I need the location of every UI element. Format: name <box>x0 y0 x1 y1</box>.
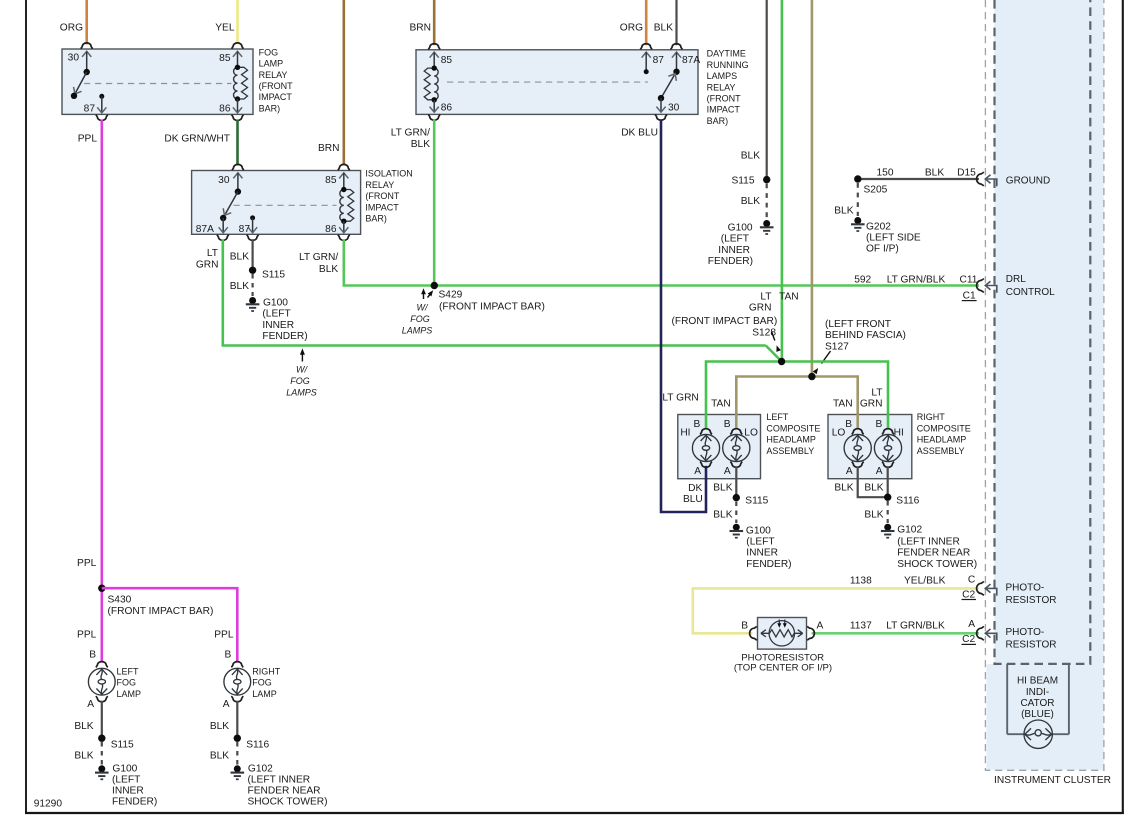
wire LT GRN/BLK isolation 86 down to DRL control run <box>344 239 979 285</box>
wire DK GRN/WHT fog relay 86 to isolation relay 30 <box>236 120 239 166</box>
instrument cluster inner dashed box <box>995 0 1091 664</box>
isolation relay pin 87A lead and arrow <box>222 218 224 232</box>
svg-text:B: B <box>225 649 232 660</box>
svg-text:G100: G100 <box>746 526 771 537</box>
svg-text:ORG: ORG <box>60 23 83 34</box>
fog lamp relay pin 30 arrow and lead <box>82 51 91 57</box>
svg-text:HI: HI <box>680 427 690 438</box>
svg-text:LT GRN/BLK: LT GRN/BLK <box>887 274 946 285</box>
svg-text:RESISTOR: RESISTOR <box>1006 640 1057 651</box>
wire BLK isolation 87 to S115 <box>252 239 254 270</box>
fog lamp relay coil <box>234 67 248 99</box>
svg-text:1137: 1137 <box>850 621 872 632</box>
svg-text:TAN: TAN <box>711 398 731 409</box>
svg-text:INDI-: INDI- <box>1026 687 1049 698</box>
svg-text:IMPACT: IMPACT <box>259 92 293 102</box>
DRL relay pin 85 cup arrow lead <box>428 44 440 50</box>
isolation relay coil <box>340 190 354 222</box>
svg-text:BLK: BLK <box>741 151 760 162</box>
svg-text:LT GRN/BLK: LT GRN/BLK <box>886 621 945 632</box>
DRL relay pin 87A cup arrow lead <box>671 44 683 50</box>
svg-text:BLK: BLK <box>864 510 883 521</box>
ground G102 (right fog) <box>234 765 241 772</box>
svg-text:TAN: TAN <box>833 398 853 409</box>
splice S205 and BLK wire to cluster GROUND <box>858 178 979 180</box>
wire BLK right assembly LO+HI to S116 <box>858 466 888 497</box>
svg-text:COMPOSITE: COMPOSITE <box>766 423 820 433</box>
photoresistor terminal cups <box>750 626 757 640</box>
wire BLK left assembly LO to S115 <box>735 466 737 497</box>
svg-text:RUNNING: RUNNING <box>707 60 749 70</box>
svg-text:LT GRN/: LT GRN/ <box>299 252 338 263</box>
svg-text:FENDER NEAR: FENDER NEAR <box>248 786 321 797</box>
svg-text:BRN: BRN <box>318 143 340 154</box>
svg-text:FOG: FOG <box>290 376 310 386</box>
svg-text:DK BLU: DK BLU <box>621 128 658 139</box>
svg-text:HI: HI <box>894 427 904 438</box>
svg-text:A: A <box>817 620 824 631</box>
left assembly HI bulb feed stub <box>705 414 708 429</box>
svg-text:GRN: GRN <box>749 303 772 314</box>
svg-text:RIGHT: RIGHT <box>917 412 946 422</box>
svg-text:LT GRN/: LT GRN/ <box>391 128 430 139</box>
svg-text:S115: S115 <box>111 739 134 750</box>
svg-text:C1: C1 <box>963 290 976 301</box>
left fog lamp bulb <box>88 668 115 695</box>
wire BLK feed to DRL relay 87A <box>675 0 677 45</box>
svg-text:A: A <box>876 466 883 477</box>
svg-text:LAMP: LAMP <box>259 59 284 69</box>
svg-text:85: 85 <box>325 175 337 186</box>
wire BLK left fog lamp to S115 <box>101 701 103 739</box>
svg-text:TAN: TAN <box>779 292 799 303</box>
wire BLK dashed S205 to G202 <box>857 183 859 216</box>
right fog lamp cups <box>231 662 243 668</box>
svg-text:A: A <box>223 699 230 710</box>
svg-text:A: A <box>694 466 701 477</box>
ground G100 (DRL area) <box>763 220 770 227</box>
right assembly LO bulb <box>844 434 871 461</box>
svg-text:BLK: BLK <box>834 206 853 217</box>
svg-text:(LEFT INNER: (LEFT INNER <box>248 774 311 785</box>
svg-text:LT: LT <box>871 388 882 399</box>
svg-text:GRN: GRN <box>196 260 219 271</box>
svg-text:BLK: BLK <box>741 196 760 207</box>
svg-text:BLK: BLK <box>654 23 673 34</box>
svg-text:1138: 1138 <box>850 576 872 587</box>
svg-text:87A: 87A <box>196 224 214 235</box>
svg-text:(LEFT: (LEFT <box>746 537 774 548</box>
svg-text:LO: LO <box>744 427 758 438</box>
wire BRN feed to isolation relay 85 <box>342 0 345 165</box>
svg-text:W/: W/ <box>296 365 308 375</box>
wire BLK dashed to G100 (left fog) <box>101 742 103 765</box>
svg-text:INNER: INNER <box>746 548 778 559</box>
svg-text:SHOCK TOWER): SHOCK TOWER) <box>897 559 977 570</box>
svg-text:HI BEAM: HI BEAM <box>1017 676 1058 687</box>
svg-text:30: 30 <box>68 53 80 64</box>
DRL relay dashed centerline <box>447 81 648 83</box>
svg-text:LAMPS: LAMPS <box>286 387 317 397</box>
DRL relay pin 86 lead arrow <box>433 100 435 112</box>
svg-text:86: 86 <box>219 104 231 115</box>
svg-text:87A: 87A <box>682 55 700 66</box>
svg-text:(LEFT INNER: (LEFT INNER <box>897 537 960 548</box>
isolation relay pin 85 cup arrow lead <box>338 164 350 170</box>
DRL relay switch arm (30 to 87A) <box>673 69 679 75</box>
DRL relay coil <box>424 68 438 100</box>
svg-text:ASSEMBLY: ASSEMBLY <box>917 446 965 456</box>
instrument cluster outer dashed boundary <box>985 0 1104 770</box>
wire ORG feed to fog lamp relay pin 30 <box>85 0 88 44</box>
fog lamp relay pin 87 terminal cup <box>96 115 108 121</box>
svg-text:(LEFT FRONT: (LEFT FRONT <box>825 319 891 330</box>
svg-text:(FRONT: (FRONT <box>259 81 293 91</box>
left assembly LO bulb <box>723 434 750 461</box>
cluster entry GROUND (D15) <box>977 172 984 186</box>
wire BLK dashed to G102 <box>887 501 889 523</box>
photoresistor box <box>758 618 807 650</box>
svg-text:D15: D15 <box>957 168 976 179</box>
svg-text:INNER: INNER <box>718 245 750 256</box>
svg-text:B: B <box>89 649 96 660</box>
svg-text:BAR): BAR) <box>365 214 387 224</box>
svg-text:(LEFT: (LEFT <box>112 774 140 785</box>
svg-text:RELAY: RELAY <box>365 180 394 190</box>
svg-text:RIGHT: RIGHT <box>252 667 280 677</box>
svg-text:(FRONT: (FRONT <box>707 94 741 104</box>
svg-text:C2: C2 <box>962 634 975 645</box>
svg-text:PPL: PPL <box>77 558 97 569</box>
svg-text:S205: S205 <box>864 185 888 196</box>
svg-text:BLK: BLK <box>864 483 883 494</box>
svg-text:30: 30 <box>218 175 230 186</box>
svg-text:BLK: BLK <box>411 139 430 150</box>
svg-text:(LEFT: (LEFT <box>721 234 749 245</box>
svg-text:FENDER): FENDER) <box>112 797 157 808</box>
wire BLK right fog lamp to S116 <box>236 701 238 739</box>
fog lamp relay switch arm (30 to 87) <box>84 69 90 75</box>
fog lamp relay pin 86 lead and arrow <box>237 99 239 112</box>
svg-text:A: A <box>968 619 975 630</box>
svg-text:YEL/BLK: YEL/BLK <box>904 576 946 587</box>
svg-text:CATOR: CATOR <box>1020 698 1054 709</box>
isolation relay dashed centerline <box>234 204 337 206</box>
svg-text:LEFT: LEFT <box>766 412 789 422</box>
splice S115 (isolation) <box>249 267 256 274</box>
svg-text:DK: DK <box>688 483 702 494</box>
svg-text:S115: S115 <box>745 496 768 507</box>
svg-text:LAMP: LAMP <box>117 689 142 699</box>
instrument cluster interior fill <box>995 0 1104 664</box>
svg-text:BLK: BLK <box>230 252 249 263</box>
svg-text:S430: S430 <box>108 595 132 606</box>
svg-text:LT: LT <box>207 248 218 259</box>
right assembly HI bulb cups <box>882 429 894 435</box>
svg-text:HEADLAMP: HEADLAMP <box>766 435 816 445</box>
svg-text:(TOP CENTER OF I/P): (TOP CENTER OF I/P) <box>734 662 832 673</box>
svg-text:30: 30 <box>668 103 680 114</box>
svg-text:(FRONT IMPACT BAR): (FRONT IMPACT BAR) <box>108 606 214 617</box>
wire YEL feed to fog lamp relay pin 85 <box>236 0 239 44</box>
wire ORG feed to DRL relay 87 <box>645 0 648 45</box>
svg-text:BLK: BLK <box>230 281 249 292</box>
svg-text:S429: S429 <box>439 290 463 301</box>
svg-text:86: 86 <box>325 224 337 235</box>
svg-text:FENDER NEAR: FENDER NEAR <box>897 548 970 559</box>
svg-text:YEL: YEL <box>215 23 235 34</box>
wire LT GRN vertical feed to S128 <box>781 0 784 362</box>
svg-text:PPL: PPL <box>78 134 98 145</box>
wire YEL/BLK photoresistor B to cluster <box>693 588 979 633</box>
wire LT GRN from isolation 87A down and across <box>223 239 766 345</box>
svg-text:PHOTO-: PHOTO- <box>1006 627 1045 638</box>
svg-text:S127: S127 <box>825 341 849 352</box>
svg-text:91290: 91290 <box>34 799 63 810</box>
svg-text:OF I/P): OF I/P) <box>866 244 899 255</box>
svg-text:B: B <box>876 419 883 430</box>
svg-text:(LEFT SIDE: (LEFT SIDE <box>866 233 921 244</box>
svg-text:A: A <box>846 466 853 477</box>
svg-text:G100: G100 <box>112 763 137 774</box>
svg-text:B: B <box>724 419 731 430</box>
svg-text:LO: LO <box>832 427 846 438</box>
fog lamp relay pin 87 contact and lead <box>99 94 104 99</box>
fog lamp relay pin 30 terminal cup <box>81 43 93 49</box>
svg-text:IMPACT: IMPACT <box>707 105 741 115</box>
hi beam indicator lamp <box>1024 720 1052 748</box>
svg-text:G100: G100 <box>728 222 753 233</box>
svg-text:LAMP: LAMP <box>252 689 277 699</box>
svg-text:INSTRUMENT CLUSTER: INSTRUMENT CLUSTER <box>994 775 1111 786</box>
svg-text:BRN: BRN <box>409 23 431 34</box>
svg-text:S116: S116 <box>246 739 269 750</box>
svg-text:RESISTOR: RESISTOR <box>1006 595 1057 606</box>
svg-text:GRN: GRN <box>860 399 883 410</box>
splice S430 (FRONT IMPACT BAR) <box>98 585 105 592</box>
svg-text:IMPACT: IMPACT <box>365 202 399 212</box>
svg-text:(FRONT: (FRONT <box>365 191 399 201</box>
svg-text:INNER: INNER <box>262 320 294 331</box>
right assembly LO bulb cups <box>852 429 864 435</box>
ground G100 (left assembly) <box>733 524 740 531</box>
svg-text:FENDER): FENDER) <box>746 559 791 570</box>
svg-text:87: 87 <box>84 104 96 115</box>
svg-text:LEFT: LEFT <box>117 667 140 677</box>
svg-text:85: 85 <box>219 53 231 64</box>
svg-text:COMPOSITE: COMPOSITE <box>917 423 971 433</box>
splice S116 (right assembly) <box>884 494 891 501</box>
cluster entry PHOTORESISTOR A (C2) <box>977 626 984 640</box>
wire PPL from fog relay 87 <box>101 120 104 662</box>
hi beam indicator pocket outline <box>1006 664 1008 734</box>
svg-text:BAR): BAR) <box>707 116 729 126</box>
ground G100 (left inner fender) <box>249 297 256 304</box>
svg-text:S115: S115 <box>731 176 754 187</box>
DRL relay pin 30 lead arrow <box>660 98 662 111</box>
wire BRN feed to DRL relay 85 <box>433 0 436 45</box>
W/ FOG LAMPS pointer arrows at S429 <box>423 293 425 299</box>
splice S115 (DRL area) <box>763 176 770 183</box>
ground G102 (left inner fender near shock tower) <box>884 524 891 531</box>
splice S429 (FRONT IMPACT BAR) <box>431 282 438 289</box>
svg-text:G100: G100 <box>263 298 288 309</box>
svg-text:BLK: BLK <box>74 751 93 762</box>
svg-text:C: C <box>968 574 975 585</box>
svg-text:SHOCK TOWER): SHOCK TOWER) <box>248 797 328 808</box>
svg-text:BLK: BLK <box>713 510 732 521</box>
svg-text:ORG: ORG <box>620 23 643 34</box>
left fog lamp cups <box>96 662 108 668</box>
svg-text:85: 85 <box>441 55 453 66</box>
svg-text:(FRONT IMPACT BAR): (FRONT IMPACT BAR) <box>439 302 545 313</box>
svg-text:PHOTO-: PHOTO- <box>1006 582 1045 593</box>
fog lamp relay box <box>62 49 253 114</box>
left assembly HI bulb return stub (DK BLU) <box>705 466 708 480</box>
svg-text:150: 150 <box>877 168 894 179</box>
svg-text:BLK: BLK <box>834 483 853 494</box>
svg-text:87: 87 <box>239 224 251 235</box>
splice S115 (left assembly) <box>733 494 740 501</box>
right assembly HI bulb <box>874 434 901 461</box>
right fog lamp bulb <box>224 668 251 695</box>
svg-text:C11: C11 <box>960 274 978 285</box>
svg-text:PPL: PPL <box>214 630 234 641</box>
svg-text:G102: G102 <box>248 763 273 774</box>
left assembly LO bulb cups <box>730 429 742 435</box>
svg-text:BLK: BLK <box>210 751 229 762</box>
page border frame <box>25 0 27 814</box>
splice S116 (right fog) <box>234 735 241 742</box>
svg-text:BLU: BLU <box>683 494 703 505</box>
svg-text:INNER: INNER <box>112 786 144 797</box>
wire BLK feed to S115 (DRL area) <box>766 0 768 180</box>
svg-text:G102: G102 <box>897 525 922 536</box>
left assembly HI bulb <box>692 434 719 461</box>
fog lamp relay dashed centerline <box>84 83 232 85</box>
svg-text:RELAY: RELAY <box>707 82 736 92</box>
svg-text:S116: S116 <box>896 496 919 507</box>
daytime running lamps relay box <box>416 50 698 115</box>
svg-text:FENDER): FENDER) <box>708 256 753 267</box>
svg-text:B: B <box>741 620 748 631</box>
svg-text:LT GRN: LT GRN <box>662 393 698 404</box>
isolation relay pin 86 lead arrow <box>343 221 345 232</box>
isolation relay switch arm (30 to 87A) <box>235 188 241 194</box>
splice S128 and LT GRN branches to headlamps <box>766 346 782 362</box>
isolation relay pin 87 contact lead arrow <box>250 215 255 220</box>
right assembly HI bulb feed stub <box>887 414 890 429</box>
svg-text:C2: C2 <box>962 589 975 600</box>
svg-text:GROUND: GROUND <box>1006 175 1050 186</box>
svg-text:HEADLAMP: HEADLAMP <box>917 435 967 445</box>
svg-text:FOG: FOG <box>252 678 271 688</box>
left assembly HI bulb cups <box>700 429 712 435</box>
svg-text:87: 87 <box>653 55 665 66</box>
svg-text:(LEFT: (LEFT <box>262 309 290 320</box>
cluster entry PHOTORESISTOR C (C2) <box>977 581 984 595</box>
isolation relay box <box>192 171 361 235</box>
S127 pointer arrow <box>822 351 831 364</box>
svg-text:BLK: BLK <box>925 168 944 179</box>
wire BLK dashed to G100 <box>252 274 254 296</box>
wire PPL branch to right fog lamp <box>102 588 238 661</box>
svg-text:(FRONT IMPACT BAR): (FRONT IMPACT BAR) <box>671 316 777 327</box>
wire LT GRN/BLK DRL 86 down to S429 <box>433 119 436 285</box>
left assembly LO bulb feed stub <box>735 414 738 429</box>
svg-text:G202: G202 <box>866 221 891 232</box>
svg-text:(BLUE): (BLUE) <box>1021 709 1054 720</box>
wire TAN vertical feed to S127 <box>811 0 814 377</box>
svg-text:ISOLATION: ISOLATION <box>365 169 412 179</box>
svg-text:BLK: BLK <box>210 721 229 732</box>
wire BLK dashed to G100 (DRL area) <box>766 184 768 220</box>
svg-text:B: B <box>694 419 701 430</box>
svg-text:DAYTIME: DAYTIME <box>707 49 746 59</box>
DRL relay pin 87 cup arrow lead contact <box>640 44 652 50</box>
svg-text:PPL: PPL <box>77 630 97 641</box>
svg-text:RELAY: RELAY <box>259 70 288 80</box>
isolation relay pin 30 cup arrow lead <box>232 164 244 170</box>
svg-text:LAMPS: LAMPS <box>402 326 433 336</box>
svg-text:86: 86 <box>441 103 453 114</box>
svg-text:BLK: BLK <box>713 483 732 494</box>
wire BLK dashed to G102 (right fog) <box>236 742 238 765</box>
svg-text:A: A <box>87 699 94 710</box>
svg-text:W/: W/ <box>417 303 429 313</box>
svg-text:B: B <box>845 419 852 430</box>
photoresistor light arrows <box>778 620 780 625</box>
svg-text:CONTROL: CONTROL <box>1006 287 1055 298</box>
splice S127 and TAN branches to headlamps <box>736 377 857 431</box>
svg-text:A: A <box>724 466 731 477</box>
S128 pointer arrow <box>772 332 775 341</box>
svg-text:DK GRN/WHT: DK GRN/WHT <box>164 134 230 145</box>
svg-text:BAR): BAR) <box>259 103 281 113</box>
svg-text:FOG: FOG <box>410 314 430 324</box>
svg-text:S115: S115 <box>262 270 285 281</box>
svg-text:LAMPS: LAMPS <box>707 71 738 81</box>
svg-text:LT: LT <box>760 292 771 303</box>
right assembly LO bulb feed stub <box>856 414 859 429</box>
W/ FOG LAMPS pointer arrow (LT GRN run) <box>301 354 303 362</box>
splice S115 (left fog) <box>98 735 105 742</box>
wire LT GRN/BLK photoresistor A to cluster <box>812 632 979 635</box>
photoresistor element <box>761 621 803 646</box>
svg-text:BLK: BLK <box>319 264 338 275</box>
svg-text:BLK: BLK <box>74 721 93 732</box>
wire DK BLU DRL 30 to left headlamp HI <box>661 119 706 512</box>
ground G202 (LEFT SIDE OF I/P) <box>854 217 861 224</box>
svg-text:592: 592 <box>854 274 871 285</box>
right composite headlamp assembly box <box>828 415 912 479</box>
left composite headlamp assembly box <box>678 415 761 479</box>
wire BLK dashed to G100 (left assembly) <box>735 502 737 524</box>
svg-text:BEHIND FASCIA): BEHIND FASCIA) <box>825 330 906 341</box>
svg-text:ASSEMBLY: ASSEMBLY <box>766 446 814 456</box>
svg-text:FENDER): FENDER) <box>262 331 307 342</box>
ground G100 (left fog) <box>98 765 105 772</box>
svg-text:FOG: FOG <box>259 47 279 57</box>
svg-text:FOG: FOG <box>117 678 137 688</box>
svg-text:DRL: DRL <box>1006 274 1026 285</box>
fog lamp relay pin 85 arrow <box>232 43 244 49</box>
cluster entry DRL CONTROL (C11) <box>977 279 984 293</box>
